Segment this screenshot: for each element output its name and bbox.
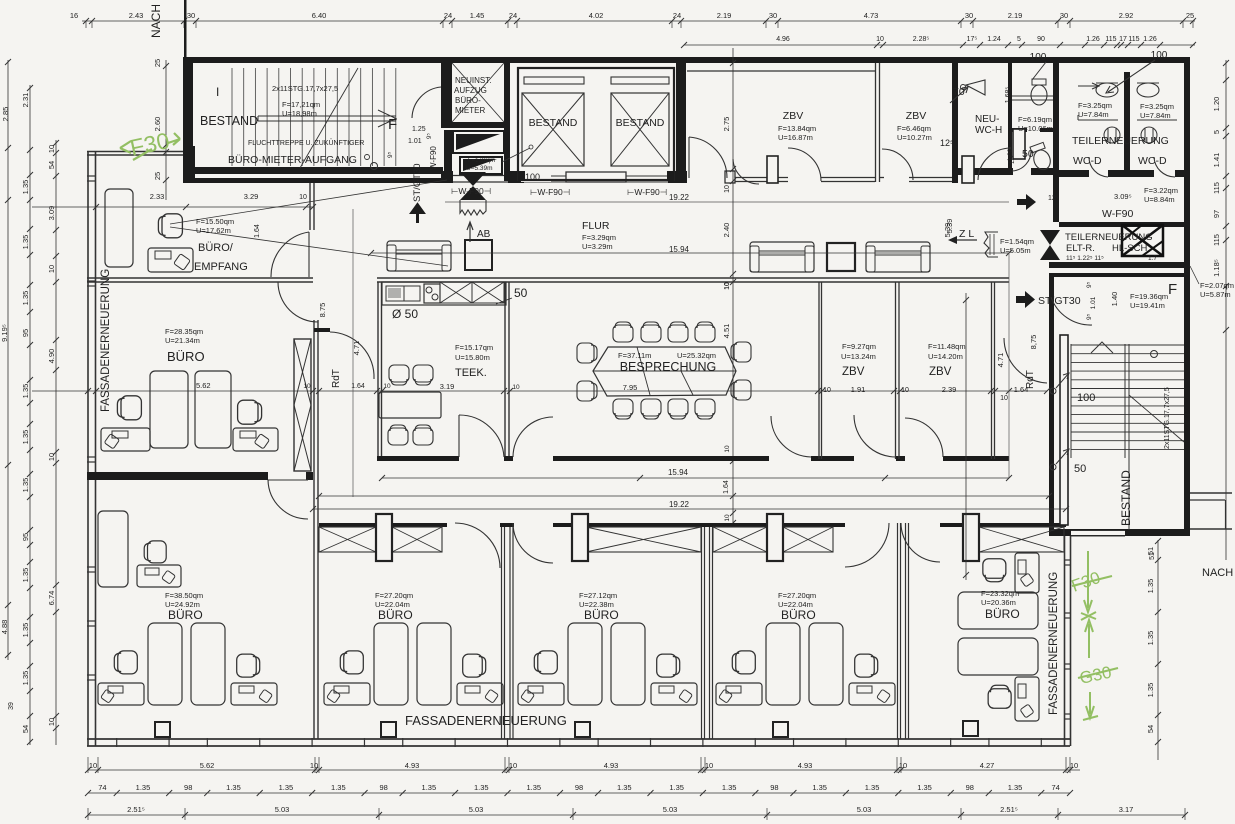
leader line a [170, 180, 447, 224]
svg-text:15.94: 15.94 [668, 468, 689, 477]
svg-text:7.95: 7.95 [623, 383, 638, 392]
svg-text:1.68⁵: 1.68⁵ [1005, 87, 1012, 104]
stair2 diagonal [1129, 395, 1184, 442]
office5 desk horiz 2 [958, 638, 1038, 675]
kitchen cupboard x2 [472, 282, 504, 303]
wall right-bottom double [1064, 536, 1066, 746]
svg-text:F=37.11m: F=37.11m [618, 351, 651, 360]
wch divider [1012, 95, 1053, 97]
wall stair-left [183, 63, 193, 147]
office1 top return [137, 565, 181, 587]
svg-text:2.51⁵: 2.51⁵ [1000, 805, 1018, 814]
svg-text:BÜRO: BÜRO [378, 608, 413, 622]
svg-text:TEILERNEUERUNG: TEILERNEUERUNG [1072, 135, 1169, 147]
buero desk tall 2 [195, 371, 231, 448]
svg-text:1.35: 1.35 [21, 568, 30, 583]
hatched wall office5 [979, 527, 1064, 552]
svg-text:5.03: 5.03 [857, 805, 872, 814]
svg-text:F=3.25qm: F=3.25qm [1140, 102, 1174, 111]
green f30 top-left [120, 133, 180, 160]
office5 desk bottom [1015, 677, 1039, 721]
elevator cab2 door slot [611, 77, 669, 84]
svg-text:2.31: 2.31 [21, 93, 30, 108]
svg-text:2.33: 2.33 [150, 192, 165, 201]
svg-text:24: 24 [444, 11, 452, 20]
svg-text:ZBV: ZBV [929, 366, 952, 378]
svg-text:10: 10 [823, 387, 831, 394]
svg-text:8,75: 8,75 [1029, 335, 1038, 350]
wall top outer [183, 57, 1190, 63]
office5 chair bottom [988, 685, 1011, 708]
conference chair bottom 1 [613, 399, 633, 419]
stair2 circle [1151, 351, 1158, 358]
svg-text:HL-SCH.: HL-SCH. [1112, 243, 1150, 254]
svg-text:BESTAND: BESTAND [200, 114, 258, 128]
wall mid bottom seg3 [553, 456, 769, 461]
svg-text:74: 74 [1051, 783, 1059, 792]
svg-text:5.03: 5.03 [275, 805, 290, 814]
svg-text:1.35: 1.35 [21, 623, 30, 638]
svg-text:U=21.34m: U=21.34m [165, 336, 200, 345]
svg-text:F=6.46qm: F=6.46qm [897, 124, 931, 133]
svg-text:98: 98 [575, 783, 583, 792]
wall office1/2 [313, 523, 315, 739]
svg-text:1.25: 1.25 [412, 126, 426, 133]
svg-text:U=3.29m: U=3.29m [582, 242, 613, 251]
wall office3/4 double [701, 523, 703, 739]
svg-text:4.93: 4.93 [604, 761, 619, 770]
wall right of shaft2 [676, 63, 686, 181]
office5 small box [963, 721, 978, 736]
teek chair 2 [413, 365, 433, 385]
svg-text:BÜRO/: BÜRO/ [198, 242, 234, 254]
door office5 [901, 523, 940, 562]
svg-text:70: 70 [953, 86, 965, 98]
door leaf corridor [725, 171, 735, 183]
svg-text:6.40: 6.40 [312, 11, 327, 20]
svg-text:10: 10 [509, 761, 517, 770]
svg-text:50: 50 [514, 286, 528, 300]
svg-text:RdT: RdT [331, 369, 342, 388]
office3 furniture [568, 623, 602, 705]
sill below shaft2 [626, 175, 668, 177]
conference chair top 1 [613, 322, 633, 342]
door office2 [455, 523, 500, 568]
wall top-left double [87, 151, 183, 153]
svg-text:F=19.36qm: F=19.36qm [1130, 292, 1168, 301]
svg-text:U=20.36m: U=20.36m [981, 598, 1016, 607]
teek table [379, 392, 441, 418]
svg-text:1.35: 1.35 [917, 783, 932, 792]
svg-text:25: 25 [153, 172, 162, 180]
window sill box corridor [566, 172, 626, 182]
svg-text:1.35: 1.35 [21, 235, 30, 250]
dim line corridor 15.94 [371, 252, 1009, 254]
black arrow right w-f90 [1017, 194, 1036, 210]
svg-text:4.93: 4.93 [405, 761, 420, 770]
door wch 1 [978, 148, 1011, 180]
svg-text:4.27: 4.27 [980, 761, 995, 770]
stair2 bottom sill [1071, 531, 1125, 535]
toilet wch 2 [1029, 142, 1053, 172]
dim row top 2 [684, 44, 1195, 46]
svg-text:17⁵: 17⁵ [967, 36, 978, 43]
svg-text:9⁵: 9⁵ [426, 133, 433, 139]
dim col left mid [29, 85, 31, 745]
conference chair bottom 4 [695, 399, 715, 419]
door zbv4 [905, 418, 943, 457]
svg-text:TEEK.: TEEK. [455, 367, 487, 379]
dim row bottom C [88, 814, 1185, 816]
svg-text:1.24: 1.24 [987, 36, 1001, 43]
sink wcd 1 [1096, 83, 1118, 97]
buero desk right [233, 428, 278, 451]
svg-text:ZBV: ZBV [842, 366, 865, 378]
kitchen sink [386, 286, 404, 301]
leader u539 [502, 148, 530, 162]
svg-text:1.35: 1.35 [865, 783, 880, 792]
svg-text:3.19: 3.19 [440, 382, 455, 391]
svg-text:1.35: 1.35 [279, 783, 294, 792]
svg-text:10: 10 [705, 761, 713, 770]
neuinst room cross [452, 63, 504, 122]
door zbv3 [854, 415, 896, 457]
elt black panel [1122, 225, 1163, 256]
svg-text:BÜRO: BÜRO [985, 607, 1020, 621]
svg-text:ZBV: ZBV [906, 110, 926, 122]
svg-text:1.7: 1.7 [1148, 255, 1157, 262]
svg-text:F=23.32qm: F=23.32qm [981, 589, 1019, 598]
wall right outer [1184, 57, 1190, 536]
office5 desk top [1015, 553, 1039, 593]
wall stair1 bottom [193, 167, 443, 174]
svg-text:F=11.48qm: F=11.48qm [928, 342, 966, 351]
black arrow right st-gt30 [1016, 291, 1035, 308]
svg-text:FLUR: FLUR [582, 220, 610, 232]
elevator corner feet [518, 171, 525, 181]
buero chair left [117, 396, 141, 420]
svg-text:U=10.06m: U=10.06m [1018, 124, 1053, 133]
svg-text:10: 10 [47, 718, 56, 726]
svg-text:25: 25 [153, 59, 162, 67]
svg-text:1.35: 1.35 [21, 671, 30, 686]
wall neuinst right [504, 63, 510, 181]
svg-text:4.51: 4.51 [722, 324, 731, 339]
svg-text:F=3.29qm: F=3.29qm [582, 233, 616, 242]
svg-text:12⁵: 12⁵ [1048, 195, 1059, 202]
svg-text:1.01: 1.01 [1090, 296, 1097, 309]
svg-text:NACH: NACH [149, 4, 163, 38]
svg-text:2.19: 2.19 [1008, 11, 1023, 20]
door office4 [845, 523, 889, 567]
wall corridor top-left [183, 178, 445, 183]
svg-text:1.26: 1.26 [1086, 36, 1100, 43]
svg-text:⊢W-F90⊣: ⊢W-F90⊣ [451, 186, 492, 196]
couch corridor 2 [750, 242, 814, 272]
dim line lower 19.22 [319, 495, 1049, 497]
conference chair right 1 [731, 342, 751, 362]
svg-text:F: F [1168, 281, 1177, 298]
conference chair bottom 3 [668, 399, 688, 419]
window mullion ticks bottom [116, 738, 118, 747]
hatched wall office2 a [319, 527, 376, 552]
stair1 treads [231, 68, 233, 166]
wall teek/bespr divider [504, 282, 506, 461]
pillar office band 4 [963, 514, 979, 561]
green arrow right 3 [1083, 692, 1098, 720]
svg-text:10: 10 [1000, 395, 1008, 402]
wall corridor top c [735, 177, 788, 179]
dim line mid-band 391 [32, 390, 1047, 392]
wall block left of shaft1 [508, 171, 524, 183]
empfang return desk [148, 248, 193, 272]
wall neighbor stub [1190, 492, 1232, 494]
svg-text:U=8.84m: U=8.84m [1144, 195, 1175, 204]
door buero mid [278, 282, 318, 322]
svg-text:2.92: 2.92 [1119, 11, 1134, 20]
svg-text:15.94: 15.94 [669, 245, 690, 254]
svg-text:5.03: 5.03 [469, 805, 484, 814]
stair2 treads [1071, 344, 1184, 346]
dim col left inner [55, 140, 57, 745]
svg-text:10: 10 [901, 387, 909, 394]
wall corner left-stair [183, 146, 195, 181]
svg-text:98: 98 [966, 783, 974, 792]
wall block below neuinst [441, 171, 453, 183]
corridor table [827, 243, 855, 271]
svg-text:F=1.54qm: F=1.54qm [1000, 237, 1034, 246]
svg-text:RdT: RdT [1025, 370, 1036, 389]
window ticks right wall [1064, 559, 1071, 561]
office4 furniture [766, 623, 800, 705]
svg-text:39: 39 [8, 702, 15, 710]
door office3 [513, 523, 553, 563]
teek chair 4 [413, 425, 433, 445]
svg-text:F=15.17qm: F=15.17qm [455, 343, 493, 352]
svg-text:2.43: 2.43 [129, 11, 144, 20]
svg-text:3.09⁵: 3.09⁵ [1114, 192, 1132, 201]
svg-text:ST/GT30: ST/GT30 [1038, 295, 1081, 307]
svg-text:1.20: 1.20 [1212, 97, 1221, 112]
svg-text:U=7.84m: U=7.84m [1078, 110, 1109, 119]
stair1 run diagonal [300, 68, 358, 168]
sill below liftroom [453, 175, 508, 177]
wcd shelf 1 [1078, 119, 1118, 121]
window ticks left wall [87, 175, 96, 177]
svg-text:FASSADENERNEUERUNG: FASSADENERNEUERUNG [1048, 572, 1060, 715]
svg-text:74: 74 [98, 783, 106, 792]
door rdt passage [330, 332, 374, 379]
wall zbv4 right [991, 282, 993, 459]
svg-text:NACH: NACH [1202, 567, 1233, 579]
svg-text:⊢W-F90⊣: ⊢W-F90⊣ [627, 187, 668, 197]
door wcd 1 [1089, 157, 1108, 177]
wall stair2 top [1049, 273, 1190, 277]
stair1 arrow [378, 110, 396, 127]
conference table [593, 347, 736, 396]
svg-text:98: 98 [184, 783, 192, 792]
label 100 elev [521, 170, 551, 182]
svg-text:98: 98 [379, 783, 387, 792]
svg-text:50: 50 [1074, 463, 1086, 475]
dim line mid 15.94 [382, 477, 1009, 479]
empfang chair [158, 214, 182, 238]
wch small walls [1012, 128, 1027, 132]
svg-text:12⁵: 12⁵ [940, 138, 954, 148]
ab box [465, 240, 492, 270]
conference chair bottom 2 [641, 399, 661, 419]
svg-text:2.39: 2.39 [942, 385, 957, 394]
wall mid bottom seg2 [504, 456, 513, 461]
elevator cab2 cross [611, 93, 669, 166]
kitchen counter [382, 282, 506, 305]
svg-text:U=14.20m: U=14.20m [928, 352, 963, 361]
duct torn box ab [460, 200, 486, 215]
svg-text:U=18,98m: U=18,98m [282, 109, 317, 118]
svg-text:10: 10 [512, 384, 520, 391]
symbol flag 70 [966, 80, 985, 95]
stair2 annotation circle 2 [1050, 464, 1056, 470]
svg-text:100: 100 [1030, 52, 1047, 63]
svg-text:10: 10 [303, 383, 311, 390]
svg-text:1.35: 1.35 [1146, 631, 1155, 646]
zl arrow [950, 239, 977, 241]
black arrow up st-gt30 left [411, 204, 424, 222]
duct bowtie ab [460, 172, 486, 200]
svg-text:4.88: 4.88 [0, 620, 9, 635]
svg-text:Z L: Z L [959, 228, 974, 240]
buero chair right [238, 400, 262, 424]
svg-text:1.35: 1.35 [474, 783, 489, 792]
svg-text:NEU-: NEU- [975, 114, 999, 125]
hatched wall office2 b [392, 527, 442, 552]
drain wcd 1 [1104, 127, 1120, 143]
svg-text:5.39: 5.39 [945, 219, 954, 234]
door office1 [268, 479, 308, 481]
svg-text:2.85: 2.85 [1, 107, 10, 122]
svg-text:1.35: 1.35 [21, 291, 30, 306]
conference chair right 2 [731, 380, 751, 400]
wall office4/5 double [897, 523, 899, 739]
elevator cab1 door slot [524, 77, 584, 84]
svg-text:ST/GT30: ST/GT30 [412, 163, 423, 202]
stair2 chevron [1091, 342, 1113, 353]
svg-text:1.18⁵: 1.18⁵ [1212, 259, 1221, 277]
hatched wall office4 b [783, 527, 833, 552]
svg-text:98: 98 [770, 783, 778, 792]
svg-text:16: 16 [70, 11, 78, 20]
door zbv1-top [788, 148, 821, 181]
buero desk tall 1 [150, 371, 188, 448]
svg-text:19.22: 19.22 [669, 500, 690, 509]
svg-text:2x11STG.17,7x27,5: 2x11STG.17,7x27,5 [272, 84, 338, 93]
svg-text:4.96: 4.96 [776, 36, 790, 43]
svg-text:F=28.35qm: F=28.35qm [165, 327, 203, 336]
wall elt bottom [1049, 262, 1190, 268]
svg-text:11⁵ 1.22⁵ 11⁵: 11⁵ 1.22⁵ 11⁵ [1066, 255, 1104, 262]
new lift cab 1 [453, 131, 504, 153]
svg-text:115: 115 [1105, 36, 1116, 43]
dim 2.60 / 25 left of stair [165, 60, 167, 200]
door teek [458, 415, 460, 457]
svg-text:3.17: 3.17 [1119, 805, 1134, 814]
elevator cab1 cross [522, 93, 584, 166]
svg-text:⊢W-F90⊣: ⊢W-F90⊣ [530, 187, 571, 197]
svg-text:1.35: 1.35 [1146, 683, 1155, 698]
zbv1 top inner line [687, 70, 875, 72]
kitchen cupboard x1 [440, 282, 472, 303]
wall elt top [1059, 222, 1190, 227]
svg-text:F=3.22qm: F=3.22qm [1144, 186, 1178, 195]
leader f207 [1190, 266, 1199, 284]
wall wc partition [1008, 63, 1012, 173]
svg-text:30: 30 [965, 11, 973, 20]
svg-text:F=17,21qm: F=17,21qm [282, 100, 320, 109]
door wcd 2 [1154, 157, 1175, 177]
wall teek left [377, 282, 379, 461]
svg-text:WC-D: WC-D [1073, 155, 1102, 167]
svg-text:I: I [216, 85, 219, 99]
svg-text:1.45: 1.45 [470, 11, 485, 20]
wall mid bottom seg1 [377, 456, 459, 461]
svg-text:24: 24 [509, 11, 517, 20]
door zbv2-top [882, 149, 913, 180]
svg-text:97: 97 [1212, 210, 1221, 218]
svg-text:AB: AB [477, 229, 491, 240]
wall bottom outer double [87, 738, 1070, 740]
svg-text:WC-D: WC-D [1138, 155, 1167, 167]
svg-text:4.90: 4.90 [47, 349, 56, 364]
svg-text:BESTAND: BESTAND [529, 117, 578, 129]
door neuinst corridor [412, 87, 441, 118]
toilet wch 1 [1031, 79, 1047, 105]
svg-text:10: 10 [47, 145, 56, 153]
wall block right of shaft2 [668, 171, 687, 183]
svg-text:1.35: 1.35 [331, 783, 346, 792]
svg-text:1.64: 1.64 [723, 480, 730, 494]
svg-text:5: 5 [1017, 36, 1021, 43]
ab arrow [469, 224, 471, 242]
svg-text:1.35: 1.35 [812, 783, 827, 792]
hatched wall office4 a [713, 527, 767, 552]
conference chair left 1 [577, 343, 597, 363]
door bespr left [513, 417, 553, 457]
svg-text:Ø 50: Ø 50 [392, 307, 418, 321]
svg-text:2.51⁵: 2.51⁵ [127, 805, 145, 814]
svg-text:17: 17 [1119, 36, 1127, 43]
svg-text:2.40: 2.40 [722, 223, 731, 238]
new lift cab 2 [460, 157, 502, 174]
dim line empfang 207 [32, 206, 313, 208]
wall left outer double [87, 151, 89, 746]
door leaf wch [1013, 129, 1025, 159]
svg-text:U=25.32qm: U=25.32qm [677, 351, 716, 360]
wall buero right [313, 320, 315, 523]
wall neuinst left [441, 63, 452, 128]
svg-text:24: 24 [673, 11, 681, 20]
green arrow right 1 [1081, 551, 1096, 620]
thick mark top [184, 0, 187, 60]
svg-text:1.35: 1.35 [21, 384, 30, 399]
dim col left outer [7, 60, 9, 660]
svg-text:10: 10 [1070, 761, 1078, 770]
svg-text:30: 30 [1060, 11, 1068, 20]
dim row bottom A [88, 769, 1080, 771]
svg-text:1.26: 1.26 [1143, 36, 1157, 43]
corridor inner line [445, 201, 1009, 203]
sill below shaft1 [524, 175, 566, 177]
svg-text:U=15.80m: U=15.80m [455, 353, 490, 362]
